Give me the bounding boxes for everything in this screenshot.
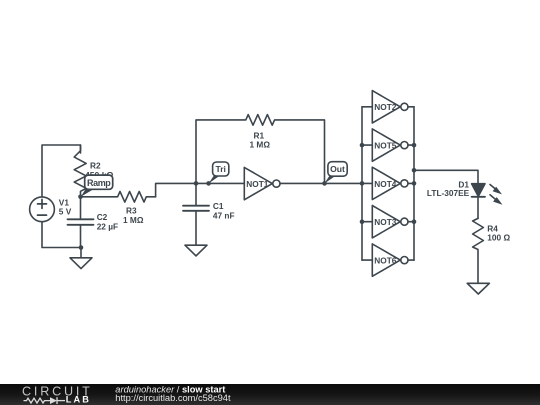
inverter NOT3	[362, 206, 414, 238]
svg-text:NOT5: NOT5	[374, 141, 397, 151]
svg-text:C2: C2	[97, 212, 108, 222]
node Ramp junction	[78, 195, 83, 200]
inverter NOT2	[362, 91, 414, 123]
net flag Tri	[209, 162, 229, 184]
resistor R3	[81, 192, 156, 203]
footer bar	[0, 384, 540, 405]
svg-text:1 MΩ: 1 MΩ	[123, 215, 144, 225]
node output bus junctions	[412, 143, 417, 148]
ground under C2	[80, 248, 82, 258]
node V1- / C2 junction	[79, 245, 84, 250]
inverter NOT4	[362, 167, 414, 199]
wire D1 to R4	[477, 197, 479, 219]
svg-text:NOT3: NOT3	[374, 217, 397, 227]
svg-text:R2: R2	[90, 160, 101, 170]
svg-text:LAB: LAB	[66, 394, 91, 404]
LED D1	[472, 184, 485, 197]
CircuitLab logo resistor-diode line	[24, 397, 66, 404]
wire V1 top to R2 top	[42, 145, 81, 197]
net flag Ramp	[81, 175, 113, 197]
wire NOT1 output to bus	[280, 182, 362, 184]
inverter NOT1	[244, 167, 272, 199]
svg-text:Tri: Tri	[215, 164, 226, 174]
svg-text:NOT4: NOT4	[374, 179, 397, 189]
capacitor C2	[80, 197, 82, 220]
svg-text:NOT2: NOT2	[374, 102, 397, 112]
node input bus junctions	[360, 143, 365, 148]
net flag Out	[324, 162, 347, 184]
LED arrow 2	[490, 195, 503, 205]
inverter NOT6	[362, 244, 414, 276]
resistor R1	[196, 115, 325, 184]
node Out junction	[322, 181, 327, 186]
svg-text:22 µF: 22 µF	[97, 221, 118, 231]
svg-text:LTL-307EE: LTL-307EE	[427, 188, 470, 198]
resistor R2	[74, 145, 86, 197]
resistor R4	[473, 218, 484, 283]
ground under R4	[467, 283, 489, 294]
wire V1 bottom to ground rail	[42, 222, 81, 248]
node Tri junction (C1/R1)	[194, 181, 199, 186]
svg-text:47 nF: 47 nF	[213, 210, 235, 220]
svg-text:5 V: 5 V	[59, 207, 72, 217]
node Tri flag junction	[206, 181, 211, 186]
wire bus to LED D1	[414, 170, 478, 183]
svg-text:C1: C1	[213, 201, 224, 211]
svg-text:NOT6: NOT6	[374, 256, 397, 266]
svg-text:Out: Out	[330, 164, 345, 174]
inverter NOT5	[362, 129, 414, 161]
capacitor C1	[195, 183, 197, 205]
voltage source V1	[30, 197, 55, 222]
node junction dots	[78, 143, 416, 250]
svg-text:100 Ω: 100 Ω	[487, 233, 510, 243]
LED arrow 1	[490, 185, 502, 195]
ground under C1	[185, 245, 207, 256]
svg-text:1 MΩ: 1 MΩ	[250, 140, 271, 150]
wire R3 up to main line	[156, 183, 245, 196]
svg-text:Ramp: Ramp	[87, 178, 111, 188]
svg-text:http://circuitlab.com/c58c94t: http://circuitlab.com/c58c94t	[115, 393, 231, 403]
output bus (right) of inverter bank	[413, 107, 415, 260]
svg-text:NOT1: NOT1	[246, 179, 269, 189]
svg-text:R3: R3	[126, 206, 137, 216]
input bus (left) of inverter bank	[361, 107, 363, 260]
